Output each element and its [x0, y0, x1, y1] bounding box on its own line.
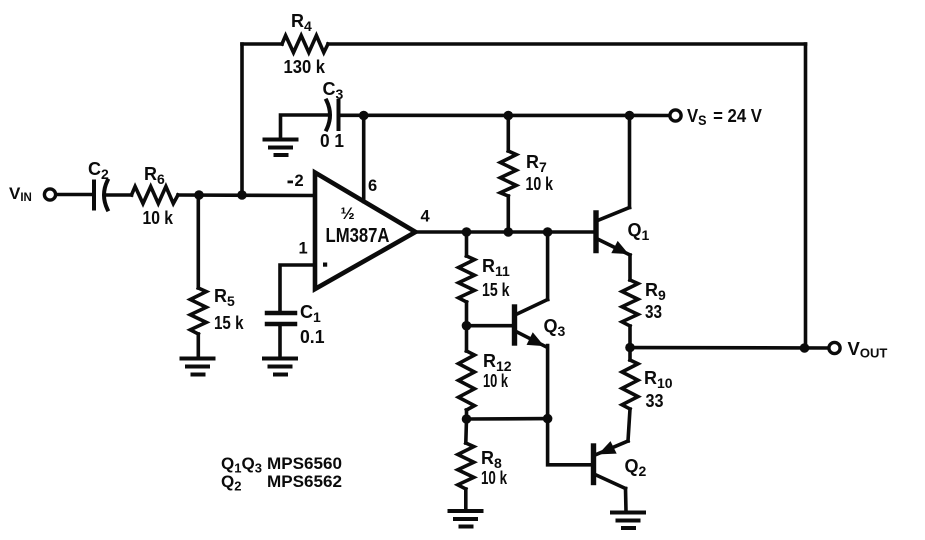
svg-text:33: 33: [645, 301, 662, 322]
resistor R6: [132, 187, 179, 204]
wire R11 to Q3 base row: [465, 302, 469, 326]
svg-text:½: ½: [341, 204, 355, 223]
ground (C1): [264, 359, 296, 375]
svg-text:1: 1: [299, 240, 308, 258]
svg-text:R6: R6: [144, 164, 165, 187]
wire R10 to Q2 emitter: [628, 409, 630, 441]
resistor R5: [190, 288, 206, 334]
svg-text:0 1: 0 1: [320, 130, 344, 151]
terminal VOUT: [829, 342, 840, 353]
svg-text:R10: R10: [644, 368, 673, 391]
junction node R11-R12: [462, 321, 472, 331]
wire Q3 collector vertical: [546, 232, 550, 300]
ground (R5): [182, 359, 214, 375]
capacitor C2: [94, 181, 108, 210]
pin 2 minus mark: [288, 181, 294, 184]
junction node R11 top: [462, 227, 472, 237]
wire ground to C3: [281, 115, 328, 140]
wire R7 top: [506, 116, 510, 152]
wire mid junction row: [467, 417, 548, 421]
svg-text:2: 2: [295, 172, 304, 190]
svg-text:15 k: 15 k: [482, 279, 510, 300]
resistor R4: [282, 36, 328, 53]
capacitor C1: [267, 313, 295, 324]
resistor R10: [622, 360, 638, 409]
wire R10 top: [628, 348, 632, 361]
terminal VIN: [44, 189, 55, 200]
ground (R8): [450, 511, 482, 527]
svg-text:10 k: 10 k: [143, 207, 174, 228]
svg-text:Q3: Q3: [544, 316, 566, 339]
svg-text:Q1: Q1: [628, 220, 650, 243]
wire Q3 base: [467, 324, 513, 328]
svg-text:Q2: Q2: [625, 456, 647, 479]
wire VOUT row: [630, 346, 829, 350]
wire feedback left vertical: [240, 44, 244, 195]
transistor Q1: [596, 208, 630, 256]
wire C1 to ground: [278, 326, 282, 358]
junction node R9-R10 VOUT: [625, 343, 635, 353]
wire Q1 emitter vertical: [628, 255, 632, 280]
svg-text:10 k: 10 k: [483, 370, 508, 391]
svg-text:10 k: 10 k: [526, 173, 554, 194]
svg-text:4: 4: [421, 208, 431, 226]
junction node R7 top: [504, 111, 514, 121]
wire VIN to C2: [56, 193, 94, 197]
op-amp plus mark: [323, 263, 327, 267]
junction node R12-R8: [462, 414, 472, 424]
terminal VS: [670, 110, 681, 121]
svg-text:6: 6: [368, 177, 377, 195]
junction node VOUT-feedback: [800, 343, 810, 353]
resistor R7: [500, 151, 516, 196]
svg-text:C2: C2: [88, 159, 109, 182]
wire R9 bottom: [628, 326, 632, 348]
junction node input-R5: [194, 190, 204, 200]
wire C2 to R6: [106, 193, 132, 197]
resistor R11: [459, 256, 475, 302]
svg-text:15 k: 15 k: [214, 312, 244, 333]
junction node Q1 collector VS: [625, 111, 635, 121]
wire R11 top: [465, 232, 469, 256]
svg-text:0.1: 0.1: [300, 326, 325, 347]
wire Q3 emitter to Q2 base: [548, 346, 591, 465]
capacitor C3: [327, 101, 339, 130]
svg-text:C3: C3: [323, 79, 344, 102]
resistor R8: [458, 443, 474, 489]
svg-text:10 k: 10 k: [481, 467, 508, 488]
junction node R7 bottom: [504, 227, 514, 237]
Q2 emitter arrow: [600, 442, 616, 453]
svg-text:33: 33: [646, 390, 664, 411]
wire op-amp pin 6: [362, 116, 366, 202]
wire top feedback right segment: [328, 42, 806, 46]
junction node input-feedback: [237, 190, 247, 200]
wire R5 branch: [197, 195, 201, 288]
wire R8 top: [464, 419, 468, 443]
junction node pin6-C3: [359, 111, 369, 121]
svg-text:VIN: VIN: [9, 184, 32, 204]
svg-text:VS = 24 V: VS = 24 V: [687, 106, 762, 128]
svg-text:R5: R5: [214, 286, 235, 309]
wire R8 to ground: [464, 489, 468, 510]
transistor Q3: [515, 300, 548, 347]
wire feedback right vertical: [804, 44, 808, 348]
ground (C3): [265, 140, 297, 156]
svg-text:R11: R11: [482, 256, 510, 279]
svg-text:R4: R4: [291, 11, 312, 34]
svg-text:C1: C1: [300, 302, 321, 325]
wire op-amp output row: [416, 230, 594, 234]
Q3 emitter arrow: [528, 334, 543, 346]
wire R5 to ground: [197, 334, 201, 358]
svg-text:130 k: 130 k: [284, 56, 326, 77]
transistor Q2: [594, 441, 629, 489]
wire R6 to op-amp input: [178, 193, 315, 197]
wire R7 bottom: [506, 196, 510, 232]
wire C3 to VS terminal: [339, 114, 669, 118]
wire Q2 collector to ground: [624, 489, 628, 512]
resistor R9: [622, 280, 638, 326]
wire op-amp pin 1: [280, 265, 315, 312]
wire Q1 collector vertical: [628, 116, 632, 208]
ground (Q2): [612, 513, 644, 529]
wire top feedback left segment: [242, 42, 282, 46]
svg-text:VOUT: VOUT: [848, 338, 888, 361]
svg-text:R7: R7: [526, 152, 547, 175]
junction node Q3 collector: [543, 227, 553, 237]
junction node Q3 emitter row: [543, 414, 553, 424]
op-amp U1 LM387A body: [315, 173, 416, 290]
Q1 emitter arrow: [613, 242, 628, 253]
wire R12 top: [465, 326, 469, 351]
resistor R12: [459, 351, 475, 410]
wire R12 bottom: [465, 410, 469, 419]
svg-text:R9: R9: [645, 280, 666, 303]
svg-text:LM387A: LM387A: [326, 225, 390, 247]
